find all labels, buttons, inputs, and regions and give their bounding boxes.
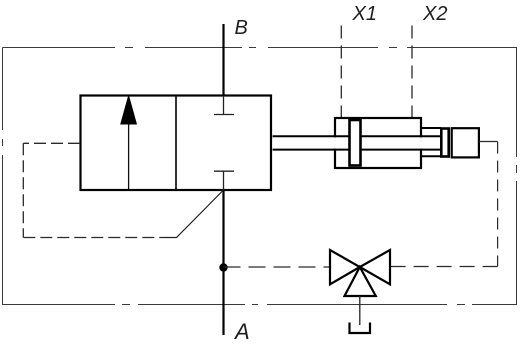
piston [350,120,361,166]
pilot feedback line left (dashed rectangle path) [23,143,163,237]
pilot connector from end block (solid then corner) [479,141,498,143]
actuator end block [452,128,479,157]
pilot line X2 (dashed) [411,26,413,118]
shuttle/selector valve bottom triangle [345,267,376,296]
blocked port B stub (closed position, top) [214,96,234,115]
shuttle/selector valve left triangle [330,250,360,284]
svg-text:B: B [235,17,248,39]
svg-text:X2: X2 [422,3,447,25]
enclosure border (dash-dot subplate boundary) [3,48,518,306]
mechanical rod valve-to-cylinder (white band over walls) [273,136,441,149]
pilot line to shuttle right (dashed) [390,266,498,268]
drain line from shuttle valve [359,296,361,325]
tank symbol [350,323,371,334]
pilot drop line (dashed vertical) [497,142,499,267]
blocked port A stub (closed position, bottom) [214,171,234,190]
pilot line junction-to-shuttle left (dashed) [224,266,331,268]
rod guide sleeve (right of cylinder) [421,128,441,156]
valve position divider [175,96,177,191]
shuttle/selector valve right triangle [360,250,390,284]
junction dot on line A [219,263,227,271]
svg-text:A: A [233,319,250,344]
valve body (2-position envelope) [81,96,272,191]
pilot feedback diagonal connector [163,191,223,238]
port line B (vertical) [222,24,224,95]
flow arrow (left position) [122,98,136,189]
port line A (vertical) [222,190,224,335]
rod end collar bar [441,129,448,157]
pilot line X1 (dashed) [340,26,342,118]
svg-text:X1: X1 [352,3,377,25]
pilot cylinder body [335,118,421,168]
